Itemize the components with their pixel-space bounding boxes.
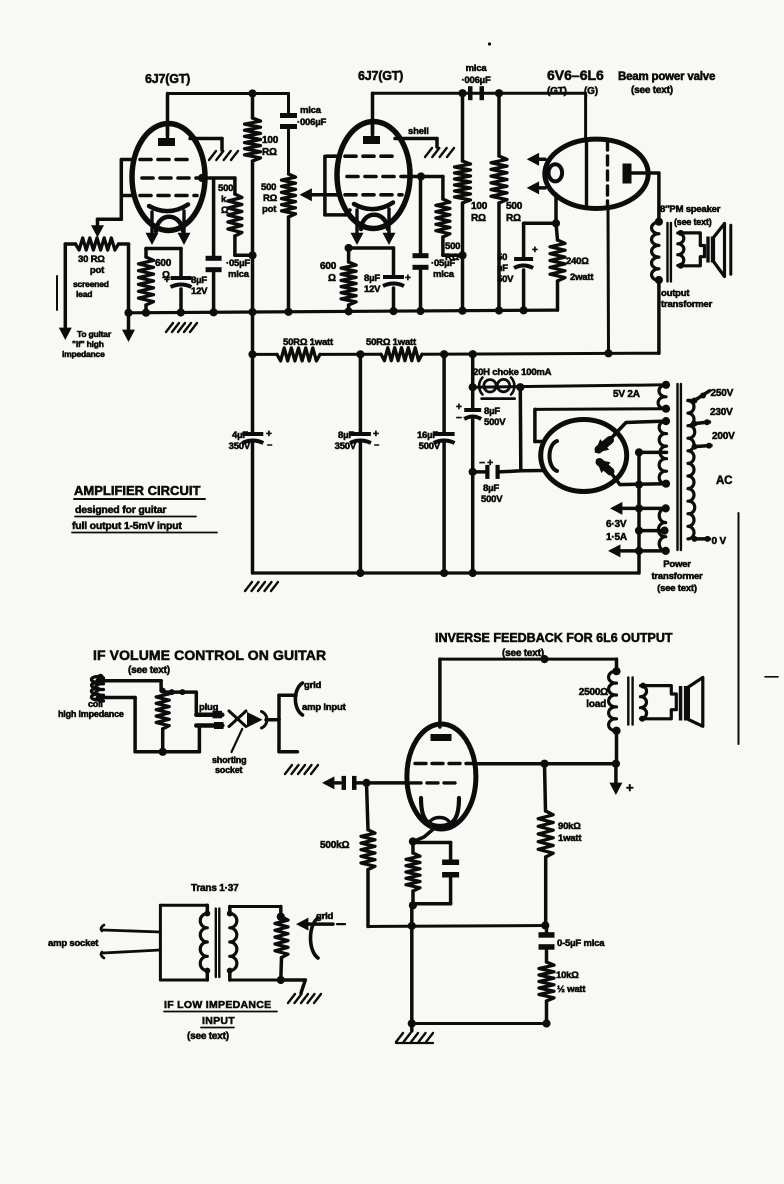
- wire V5 plate row: [476, 762, 617, 766]
- wire coil bottom: [100, 698, 135, 752]
- chassis ground bottom: [245, 582, 278, 591]
- svg-text:50V: 50V: [497, 274, 514, 285]
- svg-text:mica: mica: [466, 63, 488, 74]
- label C11 8uF 500V: [456, 402, 506, 428]
- node V5 row mid: [540, 760, 548, 768]
- capacitor C7 50uF 50V: [514, 223, 538, 310]
- speaker SP2 magnet: [679, 686, 688, 721]
- svg-text:+: +: [373, 429, 379, 440]
- node 5V top: [662, 381, 670, 389]
- junction ground rail R7: [345, 307, 353, 315]
- label C7 50uF 50V: [497, 252, 514, 285]
- svg-text:grid: grid: [304, 680, 322, 691]
- junction ground rail rail-left: [124, 309, 132, 317]
- svg-text:0-5µF mica: 0-5µF mica: [557, 938, 605, 949]
- svg-text:mica: mica: [300, 105, 322, 116]
- cathode arrows V1: [146, 211, 191, 245]
- svg-text:500V: 500V: [481, 494, 503, 505]
- label C15 0-5uF mica: [557, 938, 605, 949]
- svg-text:mica: mica: [433, 269, 455, 280]
- svg-text:(see text): (see text): [128, 665, 170, 676]
- svg-text:RΩ: RΩ: [506, 213, 521, 224]
- tap 200V: [692, 443, 713, 450]
- wire C8 below: [251, 442, 255, 574]
- label amp socket: [48, 938, 99, 949]
- svg-text:500: 500: [218, 183, 233, 194]
- capacitor C11 8uF 500V: [464, 410, 481, 573]
- wire filament top: [535, 409, 543, 441]
- label R6 500 RΩ: [445, 241, 460, 263]
- svg-text:INVERSE FEEDBACK FOR 6L6 OU: INVERSE FEEDBACK FOR 6L6 OUTPUT: [435, 631, 673, 645]
- node B+ choke line: [469, 350, 477, 358]
- title volume control: [93, 647, 326, 676]
- svg-text:−: −: [374, 440, 379, 450]
- svg-text:− +: − +: [479, 458, 493, 469]
- wire sleeve to bottom: [198, 729, 202, 752]
- svg-text:1·5A: 1·5A: [606, 532, 627, 543]
- node 63 top: [662, 504, 670, 512]
- cathode arrows V2: [351, 209, 396, 245]
- svg-text:500kΩ: 500kΩ: [320, 840, 349, 851]
- svg-text:lead: lead: [76, 289, 92, 299]
- node V2 screen: [417, 172, 425, 180]
- junction ground rail R4: [458, 307, 466, 315]
- label 6.3V 1.5A: [606, 519, 627, 543]
- label R14 10kΩ half watt: [556, 970, 586, 995]
- junction ground rail C6: [389, 307, 397, 315]
- svg-text:500: 500: [445, 241, 460, 252]
- svg-text:+: +: [405, 273, 411, 284]
- wire cathode to C7: [524, 222, 556, 226]
- title inverse feedback: [435, 631, 673, 659]
- title trans: [191, 883, 239, 894]
- wire V1 screen: [202, 178, 235, 194]
- label 230V: [710, 407, 733, 418]
- tap 0V: [692, 536, 711, 542]
- resistor R13 90k 1watt: [538, 764, 553, 926]
- wire V1 grid top-cap to rail: [168, 94, 253, 135]
- label 0V: [712, 536, 727, 547]
- winding HT: [659, 421, 666, 484]
- svg-text:500: 500: [506, 201, 523, 212]
- label C1 mica .006uF: [297, 105, 326, 128]
- wire C3 screen bypass: [212, 179, 216, 258]
- transformer T1 primary: [652, 222, 659, 353]
- grid arrow T2: [296, 918, 345, 931]
- svg-text:coil: coil: [88, 699, 103, 709]
- ground socket: [285, 765, 318, 774]
- node C12 left: [469, 468, 477, 476]
- label V1 6J7(GT): [145, 72, 190, 86]
- capacitor C9 8uF 350V: [350, 354, 379, 573]
- label R4 100 RΩ: [471, 201, 488, 224]
- svg-text:8µF: 8µF: [364, 273, 380, 284]
- svg-text:−: −: [267, 440, 272, 450]
- node B+ C10: [440, 350, 448, 358]
- wire V2 grid top-cap to rail: [373, 93, 586, 133]
- label R5 500 RΩ: [506, 201, 523, 224]
- ground shell V2: [425, 148, 454, 157]
- svg-text:pot: pot: [90, 265, 105, 276]
- tube V1 6J7 first stage: [122, 124, 205, 232]
- node grid R11: [362, 779, 370, 787]
- node 63 bottom: [662, 547, 670, 555]
- transformer T3 primary: [609, 659, 621, 764]
- label VR1 30 RΩ pot: [78, 254, 105, 276]
- svg-text:socket: socket: [215, 765, 243, 775]
- node T1 primary top: [655, 218, 663, 226]
- svg-text:6J7(GT): 6J7(GT): [145, 72, 190, 86]
- label V3 6V6-6L6: [547, 67, 604, 97]
- label 250V: [711, 388, 734, 399]
- svg-text:·006µF: ·006µF: [461, 75, 490, 86]
- node center tap: [635, 448, 643, 456]
- speaker SP1 magnet: [706, 237, 714, 263]
- winding primary AC: [688, 401, 695, 539]
- core T1: [668, 223, 671, 282]
- node V3 cathode junction: [552, 219, 560, 227]
- grid hook input: [295, 683, 302, 715]
- svg-text:230V: 230V: [710, 407, 733, 418]
- winding 5V 2A: [658, 385, 666, 409]
- wire HT center tap: [639, 451, 667, 455]
- wire V2 cathode: [349, 246, 394, 250]
- svg-text:12V: 12V: [191, 286, 208, 297]
- ground rail: [129, 310, 558, 313]
- wire to ground: [281, 980, 306, 993]
- label R7 600: [320, 261, 337, 284]
- svg-text:8µF: 8µF: [191, 275, 207, 286]
- svg-text:8µF: 8µF: [338, 430, 354, 441]
- node R3 to R1 line: [248, 251, 256, 259]
- node junction grid V1 / R1: [248, 89, 256, 97]
- capacitor C3 .05uF mica: [206, 256, 222, 312]
- resistor R2 600 ohm: [139, 249, 154, 312]
- svg-text:(see text): (see text): [631, 85, 673, 96]
- B+ rail mid: [320, 353, 381, 356]
- svg-text:(see text): (see text): [657, 583, 697, 594]
- label C3 .05uF mica: [226, 258, 250, 280]
- secondary bottom wire: [230, 979, 281, 982]
- speaker SP1 frame: [681, 233, 705, 266]
- node T1 sec top: [678, 230, 684, 236]
- resistor R1 100k: [245, 94, 261, 432]
- tap 250V: [688, 391, 710, 404]
- label R8 240 ohm 2watt: [566, 256, 594, 283]
- svg-text:AMPLIFIER CIRCUIT: AMPLIFIER CIRCUIT: [74, 483, 200, 498]
- ground low impedance: [288, 994, 321, 1003]
- svg-text:pot: pot: [262, 204, 277, 215]
- B+ rail right: [422, 353, 659, 354]
- speaker SP1 cone: [714, 224, 731, 277]
- B+ rail left: [253, 353, 278, 356]
- svg-text:+: +: [164, 275, 170, 286]
- svg-text:amp input: amp input: [302, 702, 347, 713]
- node top wire: [540, 655, 548, 663]
- node T1 primary bottom: [655, 276, 663, 284]
- svg-text:Beam power valve: Beam power valve: [618, 71, 715, 83]
- node cathode junction: [409, 837, 417, 845]
- node choke right: [516, 383, 524, 391]
- wire C5 screen bypass: [419, 177, 423, 255]
- input lead upper: [101, 925, 160, 932]
- tap 230V: [692, 419, 711, 426]
- wire V3 screen pin: [607, 208, 611, 353]
- resistor R6 500 screen: [436, 199, 463, 255]
- svg-text:load: load: [586, 699, 606, 710]
- svg-text:16µF: 16µF: [417, 430, 438, 441]
- title amplifier circuit: [72, 483, 217, 533]
- node R15 top: [277, 913, 285, 921]
- svg-text:amp socket: amp socket: [48, 938, 99, 949]
- junction bottom C9: [356, 569, 364, 577]
- node V2 cathode: [345, 244, 353, 252]
- winding 6.3V: [658, 508, 665, 551]
- label C10 16uF 500V: [417, 430, 441, 452]
- label R3 500 kΩ: [218, 183, 233, 216]
- svg-text:designed for guitar: designed for guitar: [75, 504, 166, 516]
- wire center return: [637, 452, 641, 573]
- svg-text:500V: 500V: [484, 417, 506, 428]
- wire V1 shell: [190, 139, 222, 151]
- speck: [488, 42, 491, 45]
- label beam power valve: [618, 71, 715, 96]
- cathode V3: [549, 164, 563, 181]
- chassis ground rail: [166, 323, 197, 332]
- wire V3 grid pin: [584, 93, 587, 139]
- svg-text:20H choke 100mA: 20H choke 100mA: [473, 367, 552, 378]
- node bottom left: [408, 1019, 416, 1027]
- wire coil top: [100, 681, 161, 691]
- svg-text:·006µF: ·006µF: [297, 117, 326, 128]
- label VR2 500 RΩ pot: [261, 182, 278, 215]
- label grid amp input: [302, 680, 347, 713]
- label R2 600: [155, 258, 172, 281]
- wire C1 to pot VR2: [287, 129, 290, 175]
- wire choke riser: [471, 354, 475, 407]
- tube V4 rectifier: [541, 420, 627, 492]
- wire input lead: [65, 244, 75, 331]
- label C9 8uF 350V: [335, 430, 357, 452]
- resistor R5 500k: [491, 93, 507, 310]
- arrow to guitar left: [59, 328, 72, 340]
- capacitor C12 8uF 500V: [485, 465, 521, 479]
- svg-text:IF VOLUME CONTROL ON GUITAR: IF VOLUME CONTROL ON GUITAR: [93, 647, 326, 663]
- wire V3 cathode pin: [554, 194, 558, 223]
- svg-text:30 RΩ: 30 RΩ: [78, 254, 105, 265]
- svg-text:high impedance: high impedance: [58, 709, 124, 719]
- pointer line: [232, 729, 243, 752]
- arrow V3 heater a: [527, 153, 545, 166]
- resistor R11 500k: [361, 783, 375, 927]
- capacitor C13 input: [342, 776, 357, 790]
- junction rail left: [408, 922, 416, 930]
- wire V1 grid bracket: [98, 160, 122, 220]
- node cathode bottom: [409, 901, 417, 909]
- svg-text:µF: µF: [497, 263, 508, 274]
- svg-text:transformer: transformer: [661, 299, 713, 310]
- tube V3 6V6-6L6 output: [545, 139, 648, 208]
- plug tip contact: [196, 711, 222, 719]
- stray dash: [765, 676, 778, 678]
- svg-text:INPUT: INPUT: [202, 1015, 235, 1027]
- primary box: [160, 905, 207, 980]
- input lead lower: [101, 950, 160, 958]
- wire 6.3V bottom: [608, 544, 666, 557]
- label AC: [716, 475, 732, 487]
- svg-text:Trans 1·37: Trans 1·37: [191, 883, 239, 894]
- label C6 8uF 12V: [364, 273, 381, 295]
- svg-text:12V: 12V: [364, 284, 381, 295]
- svg-text:250V: 250V: [711, 388, 734, 399]
- svg-text:Ω: Ω: [221, 205, 229, 216]
- anode V4 top: [595, 439, 611, 453]
- junction ground rail R2: [142, 309, 150, 317]
- anode V4 bottom: [596, 459, 611, 473]
- wire anode bottom to HT: [610, 472, 666, 485]
- node V5 row right: [612, 760, 620, 768]
- wiper arrow VR1: [91, 219, 104, 237]
- bottom rail: [253, 571, 640, 574]
- label R13 90kΩ 1watt: [558, 821, 582, 844]
- node B+ C9: [356, 350, 364, 358]
- wire C12 row: [473, 470, 486, 474]
- wire C13 to grid: [355, 781, 408, 785]
- svg-text:"if" high: "if" high: [72, 339, 104, 349]
- ground feedback: [396, 1024, 433, 1044]
- label R9 50RΩ 1watt: [283, 337, 334, 348]
- arrow to guitar right: [122, 330, 135, 342]
- capacitor C2 8uF 12V: [164, 249, 192, 312]
- node bottom right: [542, 1019, 550, 1027]
- junction ground rail C5: [416, 307, 424, 315]
- junction ground rail R1-line: [248, 308, 256, 316]
- shorting socket X: [229, 711, 246, 727]
- secondary top wire: [230, 907, 281, 917]
- junction ground rail C2: [177, 308, 185, 316]
- node T1 sec bottom: [678, 263, 684, 269]
- title low impedance: [164, 999, 277, 1042]
- svg-text:(see text): (see text): [674, 217, 712, 227]
- svg-text:8µF: 8µF: [483, 483, 499, 494]
- svg-text:−: −: [456, 413, 462, 424]
- svg-text:(see text): (see text): [502, 648, 544, 659]
- node T3 sec bottom: [639, 716, 645, 722]
- svg-text:½ watt: ½ watt: [557, 984, 586, 995]
- label power transformer: [651, 559, 703, 594]
- wire anode top to HT: [610, 421, 667, 440]
- core T2: [216, 909, 220, 977]
- svg-text:500: 500: [261, 182, 276, 193]
- speaker SP2 frame: [642, 686, 676, 719]
- svg-text:6J7(GT): 6J7(GT): [358, 69, 403, 83]
- svg-text:transformer: transformer: [651, 571, 703, 582]
- node HT top: [662, 417, 670, 425]
- svg-text:+: +: [456, 402, 462, 413]
- filament V4: [550, 441, 558, 471]
- capacitor C1 mica .006uF: [280, 113, 297, 129]
- svg-text:·05µF: ·05µF: [431, 258, 455, 269]
- wire plus output: [609, 764, 622, 795]
- wire socket up: [279, 695, 296, 720]
- svg-text:shorting: shorting: [212, 755, 246, 765]
- svg-text:(see text): (see text): [187, 1031, 229, 1042]
- svg-text:350V: 350V: [229, 441, 251, 452]
- svg-text:1watt: 1watt: [558, 833, 582, 844]
- svg-text:grid: grid: [316, 911, 334, 922]
- wire V5 cathode: [414, 826, 438, 842]
- svg-text:k: k: [221, 194, 227, 205]
- svg-text:6V6–6L6: 6V6–6L6: [547, 67, 604, 83]
- svg-text:200V: 200V: [712, 431, 735, 442]
- potentiometer VR2 500k: [282, 174, 296, 312]
- wiper VR3: [166, 689, 196, 712]
- svg-text:To guitar: To guitar: [77, 329, 112, 339]
- svg-text:6·3V: 6·3V: [606, 519, 627, 530]
- plug sleeve contact: [196, 722, 223, 729]
- junction bottom choke line: [469, 569, 477, 577]
- node V1 screen: [198, 174, 206, 182]
- label shorting socket: [212, 755, 246, 775]
- svg-text:240Ω: 240Ω: [566, 256, 589, 267]
- junction rail right: [541, 921, 549, 929]
- grid hook T2: [311, 918, 319, 958]
- capacitor C14 bypass: [413, 843, 459, 904]
- junction ground rail VR2: [284, 308, 292, 316]
- tube V5 6L6 feedback: [407, 724, 476, 829]
- capacitor C5 .05uF mica: [413, 253, 429, 311]
- speaker SP2 cone: [688, 677, 702, 726]
- junction ground rail R5: [495, 306, 503, 314]
- label screened lead: [73, 279, 109, 299]
- node choke left: [469, 383, 477, 391]
- resistor R14 10k half watt: [539, 962, 554, 1024]
- wire VR1 right to rail: [119, 244, 129, 334]
- grid arrow V5: [322, 776, 340, 789]
- svg-text:Ω: Ω: [328, 273, 336, 284]
- capacitor C10 16uF 500V: [434, 354, 455, 573]
- core T3: [628, 677, 632, 724]
- svg-text:mica: mica: [228, 269, 250, 280]
- svg-text:·05µF: ·05µF: [226, 258, 250, 269]
- resistor R15 grid: [275, 917, 288, 980]
- svg-text:10kΩ: 10kΩ: [556, 970, 579, 981]
- svg-text:50RΩ 1watt: 50RΩ 1watt: [283, 337, 334, 348]
- wire V1 cathode: [146, 247, 181, 251]
- socket symbol: [247, 712, 279, 729]
- junction VR3 bottom: [159, 748, 167, 756]
- core power transformer: [678, 384, 681, 550]
- svg-text:100: 100: [262, 135, 279, 146]
- tube V2 6J7 second stage: [327, 122, 410, 230]
- svg-text:100: 100: [471, 201, 488, 212]
- svg-text:screened: screened: [73, 279, 109, 289]
- capacitor C15 0.5uF mica: [539, 926, 555, 963]
- label output transformer: [661, 288, 713, 310]
- capacitor C8 4uF 350V: [242, 429, 272, 450]
- transformer T3 secondary: [641, 686, 647, 719]
- ground shell V1: [209, 151, 238, 160]
- wire bottom run: [135, 750, 199, 754]
- label R11 500kΩ: [320, 840, 349, 851]
- label 200V: [712, 431, 735, 442]
- svg-text:5V 2A: 5V 2A: [613, 389, 640, 400]
- feedback top wire: [440, 658, 617, 661]
- feedback bottom wire: [412, 1022, 547, 1025]
- label C5 .05uF mica: [431, 258, 455, 280]
- resistor R4 100k: [455, 93, 471, 310]
- junction ground rail C3: [210, 308, 218, 316]
